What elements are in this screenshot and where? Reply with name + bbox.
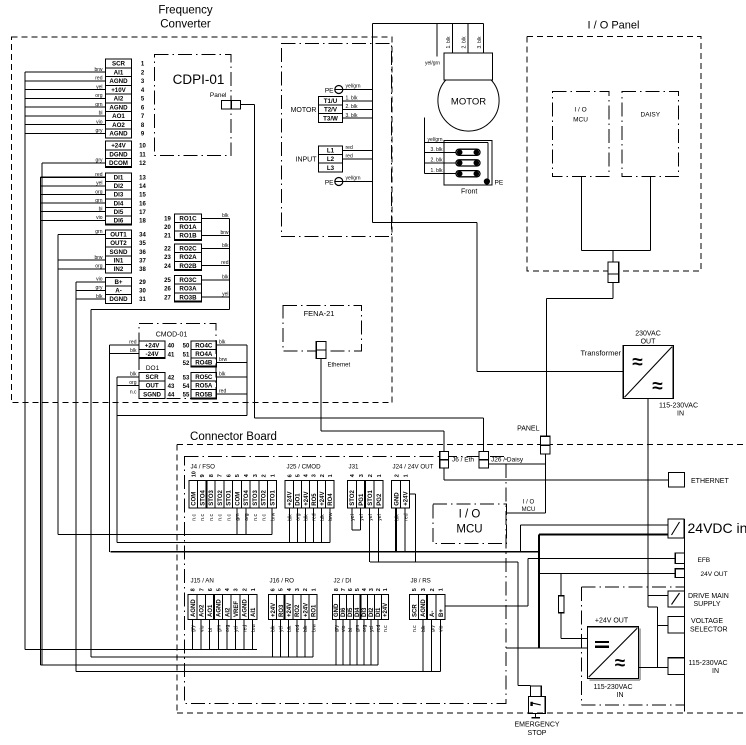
svg-text:Transformer: Transformer bbox=[580, 349, 621, 358]
wire DI4 grn bbox=[40, 198, 105, 204]
connector Ethernet on FENA-21 bbox=[316, 342, 326, 359]
svg-text:2: 2 bbox=[320, 474, 326, 477]
svg-text:brw: brw bbox=[311, 624, 317, 632]
svg-text:115-230VAC: 115-230VAC bbox=[659, 403, 698, 410]
svg-text:L3: L3 bbox=[327, 165, 335, 172]
wire DI1 red bbox=[40, 172, 105, 178]
wire RO1C blk bbox=[202, 213, 230, 219]
svg-text:vio: vio bbox=[96, 120, 103, 126]
svg-text:IN: IN bbox=[617, 692, 624, 699]
fuse F2 bbox=[456, 160, 480, 166]
svg-text:7: 7 bbox=[218, 474, 224, 477]
svg-text:AO1: AO1 bbox=[208, 604, 214, 617]
terminal block MOTOR T1/U,T2/V,T3/W bbox=[319, 97, 343, 123]
svg-text:org: org bbox=[129, 380, 136, 386]
power supply PSU 24V bbox=[588, 627, 641, 680]
cable riser analog to J15/AN bbox=[24, 72, 26, 649]
svg-text:STO2: STO2 bbox=[350, 489, 356, 505]
svg-text:3: 3 bbox=[253, 474, 259, 477]
svg-text:blk: blk bbox=[130, 348, 137, 354]
wire transformer secondary bbox=[647, 399, 649, 607]
svg-text:+24V: +24V bbox=[288, 492, 294, 506]
svg-text:Connector Board: Connector Board bbox=[190, 431, 277, 443]
wire analog pin8 vio bbox=[25, 120, 106, 126]
svg-text:5: 5 bbox=[279, 588, 285, 591]
svg-text:IN: IN bbox=[712, 668, 719, 675]
wire CMOD DO1 org bbox=[117, 380, 139, 386]
svg-text:yel/grn: yel/grn bbox=[346, 84, 361, 90]
svg-text:RO4C: RO4C bbox=[195, 342, 213, 349]
relay output block RO2 (pins 22-24) bbox=[164, 244, 202, 270]
cable riser DI1-DI6 bbox=[39, 177, 41, 665]
svg-text:J25 / CMOD: J25 / CMOD bbox=[287, 463, 322, 470]
svg-text:brw: brw bbox=[251, 624, 257, 632]
title Frequency Converter bbox=[158, 5, 213, 31]
relay output block RO1 (pins 19-21) bbox=[164, 214, 202, 240]
svg-text:23: 23 bbox=[164, 255, 171, 261]
label 115-230VAC IN psu bbox=[593, 684, 632, 699]
svg-text:B+: B+ bbox=[114, 279, 122, 286]
svg-text:6: 6 bbox=[287, 474, 293, 477]
wire RS485 gry bbox=[76, 285, 106, 291]
svg-text:+24V: +24V bbox=[111, 143, 126, 150]
svg-text:CMOD-01: CMOD-01 bbox=[156, 332, 188, 339]
svg-text:yel: yel bbox=[368, 514, 374, 520]
svg-text:AI2: AI2 bbox=[114, 96, 124, 103]
svg-text:A-: A- bbox=[430, 611, 436, 617]
wire front panel 2. blk bbox=[425, 157, 459, 163]
svg-text:MOTOR: MOTOR bbox=[451, 97, 486, 108]
svg-text:red: red bbox=[95, 172, 102, 178]
svg-text:RO3C: RO3C bbox=[179, 277, 197, 284]
svg-text:SUPPLY: SUPPLY bbox=[694, 601, 721, 608]
connector J24/24V OUT bbox=[392, 463, 434, 520]
svg-text:org: org bbox=[95, 264, 102, 270]
svg-text:FENA-21: FENA-21 bbox=[304, 309, 335, 318]
svg-text:OUT1: OUT1 bbox=[110, 232, 127, 239]
wire transformer primary from riser bbox=[373, 223, 624, 372]
wire analog pin7 bl bbox=[25, 111, 106, 117]
svg-text:STO3: STO3 bbox=[209, 489, 215, 505]
svg-text:yel/grn: yel/grn bbox=[425, 61, 440, 67]
svg-text:STO1: STO1 bbox=[227, 489, 233, 505]
port DRIVE MAIN SUPPLY bbox=[668, 591, 729, 608]
svg-text:vio: vio bbox=[96, 277, 103, 283]
svg-text:2: 2 bbox=[376, 588, 382, 591]
connector Panel on CDPI-01 bbox=[222, 100, 241, 108]
module I/O MCU on board (dash-dot box) bbox=[433, 504, 507, 544]
svg-text:blk: blk bbox=[222, 213, 229, 219]
svg-text:24: 24 bbox=[164, 264, 171, 270]
svg-text:6: 6 bbox=[271, 588, 277, 591]
svg-text:red: red bbox=[403, 513, 409, 520]
svg-text:SCR: SCR bbox=[412, 604, 418, 617]
svg-text:blk: blk bbox=[222, 274, 229, 280]
svg-text:n.c: n.c bbox=[200, 514, 206, 521]
wire CMOD supply blk bbox=[110, 348, 140, 354]
svg-text:2. blk: 2. blk bbox=[431, 157, 443, 163]
svg-text:red: red bbox=[346, 145, 353, 151]
svg-text:brw: brw bbox=[270, 512, 276, 520]
motor M bbox=[438, 70, 499, 131]
svg-text:5: 5 bbox=[296, 474, 302, 477]
svg-text:brw: brw bbox=[94, 67, 102, 73]
svg-text:MCU: MCU bbox=[573, 117, 588, 124]
svg-text:CDPI-01: CDPI-01 bbox=[173, 72, 225, 87]
control panel unit CDPI-01 (dash-dot box) bbox=[155, 55, 232, 156]
CMOD relay RO4 (pins 50-52) bbox=[183, 341, 217, 367]
svg-text:gry: gry bbox=[96, 285, 103, 291]
svg-text:10: 10 bbox=[139, 144, 146, 150]
svg-text:gry: gry bbox=[96, 158, 103, 164]
svg-text:I / O: I / O bbox=[574, 107, 586, 114]
connector J4/FSO bbox=[189, 463, 277, 520]
svg-text:3: 3 bbox=[369, 588, 375, 591]
svg-text:INPUT: INPUT bbox=[296, 157, 318, 164]
wire DCOM gry bbox=[42, 158, 105, 164]
svg-text:RO1: RO1 bbox=[312, 604, 318, 617]
svg-text:DI6: DI6 bbox=[114, 218, 124, 225]
wire RO3C blk bbox=[202, 274, 230, 280]
connector I/O panel outlet bbox=[608, 262, 619, 283]
svg-text:13: 13 bbox=[139, 175, 146, 181]
wire +24V bold distribution bbox=[111, 535, 669, 648]
wire psu output bbox=[639, 666, 669, 668]
svg-text:vio: vio bbox=[199, 625, 205, 632]
wire EFB bbox=[445, 558, 675, 606]
cable riser STO to J4/FSO bbox=[57, 234, 59, 534]
svg-text:RO5C: RO5C bbox=[195, 374, 213, 381]
svg-text:grn: grn bbox=[217, 625, 223, 632]
label EMERGENCY STOP bbox=[514, 722, 559, 738]
svg-text:STO2: STO2 bbox=[218, 489, 224, 505]
CMOD terminal DO1 SCR/OUT/SGND (pins 42-44) bbox=[139, 373, 175, 399]
port 24V OUT bbox=[675, 569, 727, 578]
wire Ethernet to J6 bbox=[321, 359, 444, 452]
wires J15 to bus bbox=[193, 620, 253, 650]
svg-text:RO1C: RO1C bbox=[179, 216, 197, 223]
svg-text:MCU: MCU bbox=[522, 507, 536, 513]
svg-text:IN1: IN1 bbox=[114, 257, 124, 264]
svg-text:-24V: -24V bbox=[146, 351, 160, 358]
svg-text:Ethernet: Ethernet bbox=[328, 363, 351, 369]
svg-text:12: 12 bbox=[139, 161, 146, 167]
svg-text:bl: bl bbox=[348, 628, 354, 632]
svg-text:3. blk: 3. blk bbox=[431, 147, 443, 153]
svg-text:AGND: AGND bbox=[421, 599, 427, 617]
svg-text:L2: L2 bbox=[327, 156, 335, 163]
svg-text:DGND: DGND bbox=[109, 151, 128, 158]
connector J15/AN bbox=[188, 577, 257, 632]
PE terminal motor side bbox=[325, 86, 343, 95]
wire CMOD relay blk bbox=[217, 371, 247, 377]
connector J2/DI bbox=[332, 577, 389, 632]
connector board enclosure (dashed) bbox=[177, 445, 746, 714]
terminal block X3 digital inputs (DI1-DI6 pins 13-18) bbox=[105, 173, 146, 225]
svg-text:STO1: STO1 bbox=[271, 489, 277, 505]
svg-text:Frequency: Frequency bbox=[158, 5, 213, 17]
svg-text:230VAC: 230VAC bbox=[635, 331, 661, 338]
PE terminal input side bbox=[325, 178, 343, 187]
svg-text:21: 21 bbox=[164, 234, 171, 240]
svg-text:blk: blk bbox=[320, 514, 326, 521]
svg-text:VOLTAGE: VOLTAGE bbox=[691, 618, 723, 625]
wire RO bundle return bbox=[91, 309, 229, 311]
svg-text:54: 54 bbox=[183, 384, 190, 390]
svg-text:brw: brw bbox=[219, 357, 227, 363]
svg-text:15: 15 bbox=[139, 193, 146, 199]
svg-text:3: 3 bbox=[312, 474, 318, 477]
svg-text:1: 1 bbox=[328, 474, 334, 477]
svg-text:8: 8 bbox=[191, 588, 197, 591]
svg-text:OUT2: OUT2 bbox=[110, 240, 127, 247]
svg-text:n.c: n.c bbox=[226, 514, 232, 521]
svg-text:red: red bbox=[129, 340, 136, 346]
svg-text:Front: Front bbox=[461, 189, 477, 196]
wire analog pin6 grn bbox=[25, 102, 106, 108]
svg-text:yel: yel bbox=[369, 626, 375, 632]
svg-text:STO4: STO4 bbox=[200, 489, 206, 505]
svg-text:50: 50 bbox=[183, 344, 190, 350]
svg-text:DI2: DI2 bbox=[369, 607, 375, 617]
svg-text:red: red bbox=[219, 389, 226, 395]
svg-text:yel: yel bbox=[222, 292, 228, 298]
svg-text:EMERGENCY: EMERGENCY bbox=[514, 722, 559, 729]
svg-text:SCR: SCR bbox=[146, 374, 160, 381]
svg-text:PG1: PG1 bbox=[359, 493, 365, 506]
svg-text:RO2A: RO2A bbox=[179, 254, 197, 261]
svg-text:3: 3 bbox=[421, 588, 427, 591]
svg-text:ETHERNET: ETHERNET bbox=[691, 478, 729, 485]
svg-text:40: 40 bbox=[168, 344, 175, 350]
wire CMOD relay brw bbox=[217, 357, 247, 363]
connector PANEL bbox=[541, 436, 551, 454]
cable collector RO4/RO5 bbox=[246, 345, 248, 415]
svg-text:org: org bbox=[95, 189, 102, 195]
wire motor lead yel/grn bbox=[436, 24, 438, 57]
wire DI6 vio bbox=[40, 215, 105, 221]
svg-text:PE: PE bbox=[325, 180, 334, 187]
bus STO to J4/FSO bbox=[58, 534, 272, 536]
svg-text:RO4: RO4 bbox=[328, 493, 334, 506]
svg-text:36: 36 bbox=[139, 250, 146, 256]
svg-text:DI4: DI4 bbox=[114, 200, 124, 207]
wires J31 STO1/PG2 to emergency loop bbox=[370, 508, 379, 562]
svg-text:DI5: DI5 bbox=[348, 607, 354, 617]
svg-text:n.c: n.c bbox=[218, 514, 224, 521]
svg-text:OUT: OUT bbox=[641, 339, 657, 346]
emergency stop switch bbox=[529, 686, 546, 718]
wire drive main supply feed bbox=[648, 596, 668, 668]
svg-text:DCOM: DCOM bbox=[109, 160, 128, 167]
svg-text:42: 42 bbox=[168, 375, 175, 381]
terminal block X4 (OUT1,OUT2,SGND,IN1,IN2 pins 34-38) bbox=[106, 230, 147, 273]
svg-text:DGND: DGND bbox=[109, 296, 128, 303]
svg-text:yel: yel bbox=[234, 626, 240, 632]
svg-text:blk: blk bbox=[287, 625, 293, 632]
svg-text:AO1: AO1 bbox=[112, 113, 125, 120]
svg-text:blk: blk bbox=[130, 371, 137, 377]
cable riser drive to motor/mains bbox=[372, 24, 374, 223]
wires J16 to bus bbox=[272, 620, 313, 658]
wire RO3B yel bbox=[202, 292, 230, 298]
svg-text:blk: blk bbox=[303, 625, 309, 632]
svg-text:RO1A: RO1A bbox=[179, 224, 197, 231]
enclosure wall right bbox=[684, 519, 686, 712]
fuse panel Front box bbox=[444, 141, 492, 186]
svg-text:24VDC in: 24VDC in bbox=[688, 520, 746, 536]
svg-text:DO1: DO1 bbox=[146, 365, 160, 372]
svg-text:red: red bbox=[95, 76, 102, 82]
svg-text:red: red bbox=[376, 625, 382, 632]
svg-text:52: 52 bbox=[183, 361, 190, 367]
svg-text:10: 10 bbox=[191, 471, 197, 477]
bus analog to J15/AN bbox=[25, 649, 257, 651]
svg-text:gry: gry bbox=[334, 625, 340, 632]
svg-text:n.c: n.c bbox=[412, 625, 418, 632]
svg-text:IN: IN bbox=[677, 411, 684, 418]
svg-text:blk: blk bbox=[304, 514, 310, 521]
svg-text:T2/V: T2/V bbox=[324, 107, 338, 114]
port EFB bbox=[675, 553, 710, 564]
cable riser front panel bbox=[424, 118, 426, 174]
svg-text:brw: brw bbox=[328, 512, 334, 520]
fuse F3 bbox=[456, 171, 480, 177]
svg-text:COM: COM bbox=[192, 492, 198, 506]
svg-text:MCU: MCU bbox=[456, 524, 482, 536]
svg-text:RO4A: RO4A bbox=[195, 351, 213, 358]
svg-text:2: 2 bbox=[242, 588, 248, 591]
svg-text:J4 / FSO: J4 / FSO bbox=[191, 463, 216, 470]
wires J2 to bus bbox=[336, 620, 378, 666]
wires J8 to bus bbox=[423, 620, 441, 672]
svg-text:J31: J31 bbox=[349, 463, 360, 470]
svg-text:27: 27 bbox=[164, 295, 171, 301]
svg-text:AI2: AI2 bbox=[225, 607, 231, 617]
CMOD relay RO5 (pins 53-55) bbox=[183, 373, 217, 399]
svg-text:+10V: +10V bbox=[111, 87, 126, 94]
svg-text:29: 29 bbox=[139, 280, 146, 286]
svg-text:n.c: n.c bbox=[130, 389, 137, 395]
svg-text:5: 5 bbox=[235, 474, 241, 477]
svg-text:3: 3 bbox=[359, 474, 365, 477]
svg-text:RO1B: RO1B bbox=[179, 233, 197, 240]
wire CMOD DO1 run bbox=[117, 414, 247, 416]
transformer T1 bbox=[623, 346, 673, 399]
wire 24VDC in bbox=[521, 525, 669, 552]
svg-text:VREF: VREF bbox=[234, 601, 240, 617]
svg-text:RO5A: RO5A bbox=[195, 383, 213, 390]
svg-text:1: 1 bbox=[403, 474, 409, 477]
svg-text:SGND: SGND bbox=[143, 391, 161, 398]
svg-text:yel/grn: yel/grn bbox=[346, 176, 361, 182]
svg-text:DI1: DI1 bbox=[114, 174, 124, 181]
svg-text:7: 7 bbox=[341, 588, 347, 591]
svg-text:16: 16 bbox=[139, 201, 146, 207]
svg-text:DRIVE MAIN: DRIVE MAIN bbox=[688, 593, 729, 600]
bus DI to J2/DI bbox=[40, 664, 377, 666]
svg-text:yel: yel bbox=[377, 514, 383, 520]
svg-text:red: red bbox=[242, 625, 248, 632]
cable riser DCOM bbox=[41, 163, 43, 665]
svg-text:1. blk: 1. blk bbox=[346, 96, 358, 102]
svg-text:1: 1 bbox=[439, 588, 445, 591]
connector J8/RS bbox=[410, 577, 445, 632]
svg-text:org: org bbox=[225, 625, 231, 632]
svg-text:≈: ≈ bbox=[615, 653, 626, 674]
svg-text:gry: gry bbox=[96, 128, 103, 134]
svg-text:24V OUT: 24V OUT bbox=[701, 571, 728, 578]
svg-text:DI5: DI5 bbox=[114, 209, 124, 216]
svg-text:31: 31 bbox=[139, 297, 146, 303]
svg-text:PG2: PG2 bbox=[377, 493, 383, 506]
svg-text:3. blk: 3. blk bbox=[346, 113, 358, 119]
wire front panel 1. blk bbox=[425, 168, 459, 174]
wire RO1B brw bbox=[202, 230, 230, 236]
svg-text:T1/U: T1/U bbox=[324, 98, 338, 105]
svg-text:SGND: SGND bbox=[110, 249, 128, 256]
wire analog pin3 red bbox=[25, 76, 106, 82]
wires J25 to bus bbox=[289, 508, 330, 542]
svg-text:9: 9 bbox=[200, 474, 206, 477]
wire input phase red bbox=[343, 145, 373, 151]
svg-text:2: 2 bbox=[430, 588, 436, 591]
svg-text:DO1: DO1 bbox=[296, 493, 302, 506]
port VOLTAGE SELECTOR bbox=[668, 617, 728, 634]
wire 24V OUT bbox=[539, 572, 675, 574]
wire panel junction bbox=[582, 250, 651, 252]
wire CDPI panel riser bbox=[255, 105, 484, 452]
svg-text:+24V: +24V bbox=[404, 492, 410, 506]
port 115-230VAC IN bbox=[668, 658, 727, 675]
connector J26/Daisy bbox=[479, 451, 524, 468]
svg-text:red: red bbox=[295, 625, 301, 632]
svg-text:14: 14 bbox=[139, 184, 146, 190]
fieldbus adapter FENA-21 (dash-dot box) bbox=[283, 305, 362, 350]
svg-text:AGND: AGND bbox=[109, 104, 128, 111]
svg-text:blk: blk bbox=[421, 625, 427, 632]
svg-text:n.c: n.c bbox=[262, 514, 268, 521]
svg-text:red: red bbox=[312, 513, 318, 520]
svg-text:RO2C: RO2C bbox=[179, 246, 197, 253]
connector J6/Eth bbox=[440, 451, 475, 468]
svg-text:gry: gry bbox=[430, 625, 436, 632]
svg-text:+24V: +24V bbox=[383, 603, 389, 617]
wire STO grn bbox=[58, 229, 106, 235]
cable riser CMOD supply to +24V rail bbox=[109, 345, 111, 552]
svg-text:DI2: DI2 bbox=[114, 183, 124, 190]
wire panel to I/O MCU bbox=[507, 454, 546, 513]
wire analog pin5 org bbox=[25, 93, 106, 99]
wire motor lead 3.blk bbox=[477, 24, 484, 53]
wire Panel port to riser bbox=[241, 104, 255, 106]
svg-text:+24V: +24V bbox=[304, 492, 310, 506]
svg-text:+24V: +24V bbox=[271, 603, 277, 617]
svg-text:red: red bbox=[221, 260, 228, 266]
svg-text:PANEL: PANEL bbox=[517, 426, 540, 433]
svg-text:115-230VAC: 115-230VAC bbox=[593, 684, 632, 691]
wire J26 to panel bbox=[489, 463, 546, 465]
module DAISY (dash-dot box) bbox=[622, 92, 679, 177]
svg-text:AO2: AO2 bbox=[112, 122, 125, 129]
svg-text:J2 / DI: J2 / DI bbox=[334, 577, 352, 584]
svg-text:org: org bbox=[296, 513, 302, 520]
svg-text:2: 2 bbox=[303, 588, 309, 591]
label I/O MCU small bbox=[522, 500, 536, 514]
svg-text:grn: grn bbox=[355, 625, 361, 632]
svg-text:1: 1 bbox=[311, 588, 317, 591]
svg-text:20: 20 bbox=[164, 225, 171, 231]
